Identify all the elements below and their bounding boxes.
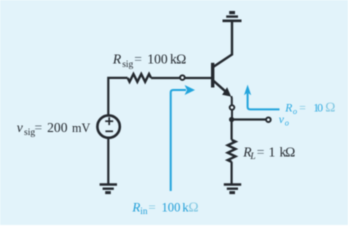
emitter arrowhead [222,87,231,96]
svg-text:=: = [257,144,265,159]
svg-text:=: = [148,199,155,214]
transistor Q1 emitter wire with arrow [214,81,228,93]
junction dot [229,117,234,122]
wire: junction to vo terminal [232,118,266,120]
plus sign inside source [105,117,113,125]
svg-text:v: v [17,120,24,135]
svg-text:Ω: Ω [325,99,335,114]
svg-text:200: 200 [47,120,68,135]
svg-text:mV: mV [72,121,90,135]
svg-text:=: = [299,101,306,114]
svg-text:R: R [131,199,140,214]
wire: junction down to RL [231,120,233,140]
open terminal circle vo [266,117,271,122]
svg-text:R: R [284,101,292,114]
svg-text:=: = [134,52,142,67]
svg-text:Ω: Ω [285,144,295,159]
Ro measurement arrow (cyan elbow) [248,93,280,110]
minus sign inside source [105,130,113,132]
open node circle on emitter [230,105,235,110]
svg-text:Ω: Ω [188,199,198,214]
label vo (cyan) [279,113,289,127]
svg-text:100: 100 [162,200,181,214]
voltage source vsig circle [97,115,119,137]
svg-text:L: L [249,152,255,162]
label vsig = 200 mV [17,120,91,138]
svg-text:0: 0 [317,101,323,114]
wire: RL to ground [231,162,233,184]
resistor RL zigzag [228,140,236,162]
svg-text:o: o [285,119,289,128]
svg-text:100: 100 [147,52,168,67]
label Rsig = 100 kOhm [112,52,187,70]
svg-text:sig: sig [122,60,133,70]
wire: base to Rsig (with input node circle) [185,77,212,79]
Rin measurement arrow (cyan elbow) [171,90,186,191]
svg-text:=: = [35,120,43,135]
ground (right, under RL) [224,185,241,193]
svg-text:Ω: Ω [176,52,186,67]
label RL = 1 kOhm [242,144,295,162]
wire: collector to supply [214,22,233,67]
wire: Rsig to left corner and down to source [108,78,127,115]
transistor Q1 base bar [211,63,214,88]
ground (left, under source) [100,185,117,193]
svg-text:1: 1 [269,144,276,159]
label Ro = 10 Ohm (cyan) [284,99,335,116]
svg-text:o: o [293,107,297,116]
wire: emitter arrowhead to node circle [230,96,233,104]
VCC supply rail symbol (top) [223,13,242,21]
resistor Rsig zigzag [128,74,151,82]
open node circle on base input [180,75,185,80]
wire: source to ground [107,138,109,184]
svg-text:in: in [140,206,148,216]
label Rin = 100 kOhm (blue) [131,199,198,216]
svg-text:R: R [112,52,122,67]
wire: node circle to junction [231,110,233,119]
